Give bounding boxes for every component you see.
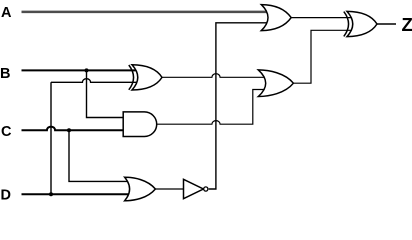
- wire XOR U1 output to OR gate U5 top input (hop over inverter riser): [162, 74, 269, 78]
- XOR gate U1 (inputs B, D-branch): [129, 65, 162, 90]
- node D junction: [49, 192, 53, 196]
- svg-text:A: A: [1, 5, 12, 21]
- node B junction: [85, 68, 89, 72]
- wire OR U3 output to inverter U6 input: [155, 188, 186, 190]
- OR gate U5 (inputs XOR U1 out, AND U2 out): [258, 70, 293, 97]
- wire C (input C to AND gate U2 bottom input, hop over D branch): [22, 127, 128, 131]
- XOR gate U7 (inputs OR U4 out, OR U5 out): [344, 11, 377, 36]
- wire XOR U7 output to Z: [377, 23, 396, 25]
- inverter U6 bubble: [204, 187, 208, 191]
- wire OR U5 output riser to XOR gate U7 bottom input: [293, 30, 353, 83]
- OR gate U3 (inputs C-branch, D): [125, 177, 156, 201]
- wire inverter U6 output riser to OR gate U4 bottom input: [209, 23, 269, 189]
- wire OR U4 output to XOR gate U7 top input: [291, 17, 353, 19]
- wire D (input D to OR gate U3 bottom input): [22, 193, 134, 195]
- wire AND U2 output to OR gate U5 bottom input (hop over inverter riser): [157, 90, 268, 125]
- svg-text:C: C: [1, 124, 12, 140]
- svg-text:Z: Z: [402, 14, 412, 35]
- svg-text:B: B: [0, 66, 10, 82]
- OR gate U4 (inputs A, inverter output): [261, 5, 291, 31]
- wire A (input A to OR gate U4 top input): [22, 11, 270, 14]
- wire B branch down to AND gate U2 top input: [87, 70, 128, 117]
- wire B (input B to XOR gate U1 top input): [22, 69, 140, 71]
- wire C branch down to OR gate U3 top input: [69, 130, 133, 181]
- inverter U6 (NOT gate): [184, 179, 204, 198]
- AND gate U2 (inputs B-branch, C): [123, 112, 157, 137]
- node C junction: [67, 128, 71, 132]
- svg-text:D: D: [1, 187, 11, 203]
- wire D branch up to XOR gate U1 bottom input (hop over B branch): [51, 79, 139, 194]
